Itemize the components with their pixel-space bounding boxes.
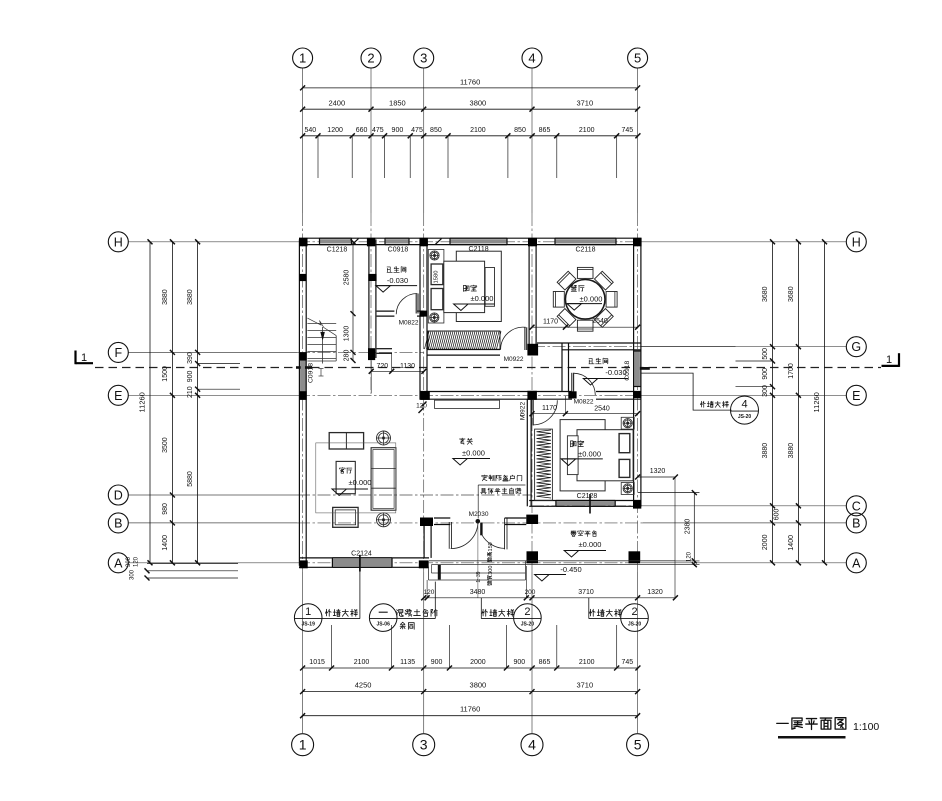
svg-text:0: 0 — [433, 271, 439, 274]
svg-text:A: A — [852, 556, 861, 570]
svg-text:2: 2 — [631, 606, 637, 618]
svg-text:E: E — [852, 389, 860, 403]
svg-text:1015: 1015 — [309, 659, 325, 666]
svg-text:3710: 3710 — [576, 681, 593, 690]
svg-text:C0918: C0918 — [624, 360, 631, 380]
svg-text:3880: 3880 — [187, 289, 194, 305]
svg-text:1: 1 — [299, 51, 306, 66]
svg-text:3710: 3710 — [576, 99, 593, 108]
svg-text:500: 500 — [762, 348, 769, 360]
svg-text:1: 1 — [81, 352, 87, 364]
svg-text:JS-19: JS-19 — [302, 622, 316, 628]
svg-text:2380: 2380 — [685, 519, 692, 535]
svg-text:3880: 3880 — [162, 289, 169, 305]
svg-text:3680: 3680 — [762, 286, 769, 302]
svg-text:1130: 1130 — [400, 363, 415, 370]
svg-text:±0.000: ±0.000 — [579, 540, 602, 549]
svg-text:C2118: C2118 — [575, 247, 595, 254]
svg-text:475: 475 — [372, 127, 384, 134]
svg-text:3500: 3500 — [162, 437, 169, 453]
svg-text:JS-20: JS-20 — [738, 414, 752, 420]
svg-text:±0.000: ±0.000 — [462, 449, 485, 458]
svg-text:B: B — [852, 516, 860, 530]
svg-text:5: 5 — [634, 737, 642, 753]
svg-text:1400: 1400 — [788, 535, 795, 551]
svg-text:4250: 4250 — [355, 681, 372, 690]
svg-text:M0822: M0822 — [574, 399, 594, 406]
svg-text:980: 980 — [162, 503, 169, 515]
svg-text:C2118: C2118 — [469, 246, 489, 253]
svg-text:M2030: M2030 — [469, 511, 489, 518]
svg-text:2100: 2100 — [354, 659, 370, 666]
svg-text:1170: 1170 — [542, 405, 557, 412]
svg-text:±0.000: ±0.000 — [349, 478, 372, 487]
svg-text:210: 210 — [187, 386, 194, 398]
svg-text:1: 1 — [886, 354, 892, 366]
svg-text:11760: 11760 — [460, 78, 480, 87]
svg-text:C2128: C2128 — [577, 493, 598, 500]
svg-text:2: 2 — [524, 606, 530, 618]
svg-text:1: 1 — [305, 606, 311, 618]
svg-text:865: 865 — [539, 659, 551, 666]
svg-text:3800: 3800 — [470, 681, 487, 690]
svg-text:1200: 1200 — [327, 127, 343, 134]
svg-text:1320: 1320 — [647, 589, 663, 596]
svg-text:300: 300 — [130, 569, 136, 580]
svg-text:±0.000: ±0.000 — [580, 295, 603, 304]
svg-text:E: E — [114, 389, 122, 403]
svg-text:1135: 1135 — [400, 659, 415, 666]
svg-text:C0918: C0918 — [388, 247, 409, 254]
svg-text:A: A — [114, 556, 123, 570]
svg-text:11760: 11760 — [460, 705, 480, 714]
svg-text:1:100: 1:100 — [853, 721, 879, 733]
svg-text:1300: 1300 — [343, 326, 350, 342]
svg-text:2540: 2540 — [594, 406, 610, 413]
svg-text:865: 865 — [539, 127, 551, 134]
svg-text:C1218: C1218 — [327, 247, 348, 254]
svg-text:3680: 3680 — [788, 286, 795, 302]
svg-text:120: 120 — [424, 589, 435, 596]
svg-text:280: 280 — [343, 350, 350, 362]
svg-text:1500: 1500 — [162, 366, 169, 382]
svg-text:3: 3 — [420, 51, 427, 66]
svg-text:1320: 1320 — [650, 468, 666, 475]
svg-text:JS-20: JS-20 — [628, 622, 642, 628]
svg-text:M0822: M0822 — [399, 320, 419, 327]
svg-text:5: 5 — [634, 51, 641, 66]
svg-text:1700: 1700 — [788, 363, 795, 379]
svg-text::: : — [476, 578, 482, 579]
svg-text:C: C — [852, 499, 861, 513]
svg-text:900: 900 — [431, 659, 443, 666]
svg-text:900: 900 — [392, 127, 404, 134]
svg-text:JS-20: JS-20 — [521, 622, 535, 628]
svg-text:JS-06: JS-06 — [377, 622, 391, 628]
svg-text:3710: 3710 — [578, 589, 594, 596]
svg-text:9: 9 — [476, 571, 482, 574]
svg-text:390: 390 — [187, 352, 194, 364]
svg-text:600: 600 — [774, 508, 781, 520]
svg-text:900: 900 — [513, 659, 525, 666]
svg-text:120: 120 — [134, 556, 140, 567]
svg-text:850: 850 — [430, 127, 442, 134]
svg-text:3800: 3800 — [470, 99, 487, 108]
svg-text:540: 540 — [304, 127, 316, 134]
svg-text:5880: 5880 — [187, 471, 194, 487]
svg-text:3480: 3480 — [470, 589, 486, 596]
svg-text:±0.000: ±0.000 — [578, 450, 601, 459]
svg-text:11260: 11260 — [138, 392, 147, 412]
svg-text:3: 3 — [420, 737, 428, 753]
svg-text:1850: 1850 — [389, 99, 406, 108]
svg-text:2: 2 — [520, 402, 527, 406]
svg-text:0: 0 — [488, 542, 494, 545]
svg-text:475: 475 — [411, 127, 423, 134]
svg-text:745: 745 — [621, 127, 633, 134]
svg-text:H: H — [114, 235, 123, 249]
svg-text:-0.450: -0.450 — [560, 565, 581, 574]
svg-text:745: 745 — [621, 659, 633, 666]
svg-text:G: G — [851, 340, 861, 354]
svg-text:2100: 2100 — [470, 127, 486, 134]
svg-text:11260: 11260 — [812, 392, 821, 412]
svg-text:B: B — [114, 516, 122, 530]
svg-text:M0922: M0922 — [504, 356, 524, 363]
svg-text:120: 120 — [687, 551, 693, 562]
svg-text:2100: 2100 — [579, 127, 595, 134]
svg-text:4: 4 — [741, 399, 747, 411]
svg-text:F: F — [114, 346, 122, 360]
svg-text:1: 1 — [299, 737, 307, 753]
svg-text:3880: 3880 — [762, 443, 769, 459]
svg-text:4: 4 — [528, 737, 536, 753]
svg-text:2100: 2100 — [579, 659, 595, 666]
svg-text:1400: 1400 — [162, 535, 169, 551]
svg-text:C0918: C0918 — [308, 363, 315, 383]
svg-text:2540: 2540 — [592, 318, 608, 325]
svg-text:660: 660 — [356, 127, 368, 134]
svg-text:900: 900 — [762, 368, 769, 380]
svg-text:H: H — [852, 235, 861, 249]
svg-text:C2124: C2124 — [351, 550, 372, 557]
svg-text:300: 300 — [126, 556, 132, 567]
svg-text:2580: 2580 — [343, 270, 350, 286]
svg-text:4: 4 — [528, 51, 535, 66]
svg-text:-0.030: -0.030 — [387, 276, 408, 285]
svg-text:3880: 3880 — [788, 443, 795, 459]
svg-text:2400: 2400 — [328, 99, 345, 108]
svg-text:2: 2 — [367, 51, 374, 66]
svg-text:900: 900 — [187, 370, 194, 382]
svg-text:850: 850 — [514, 127, 526, 134]
svg-text:±0.000: ±0.000 — [471, 294, 494, 303]
svg-text:D: D — [114, 489, 123, 503]
svg-text:2000: 2000 — [762, 534, 769, 550]
svg-text:2000: 2000 — [470, 659, 486, 666]
svg-text:720: 720 — [376, 363, 388, 370]
svg-text:1170: 1170 — [543, 319, 558, 326]
